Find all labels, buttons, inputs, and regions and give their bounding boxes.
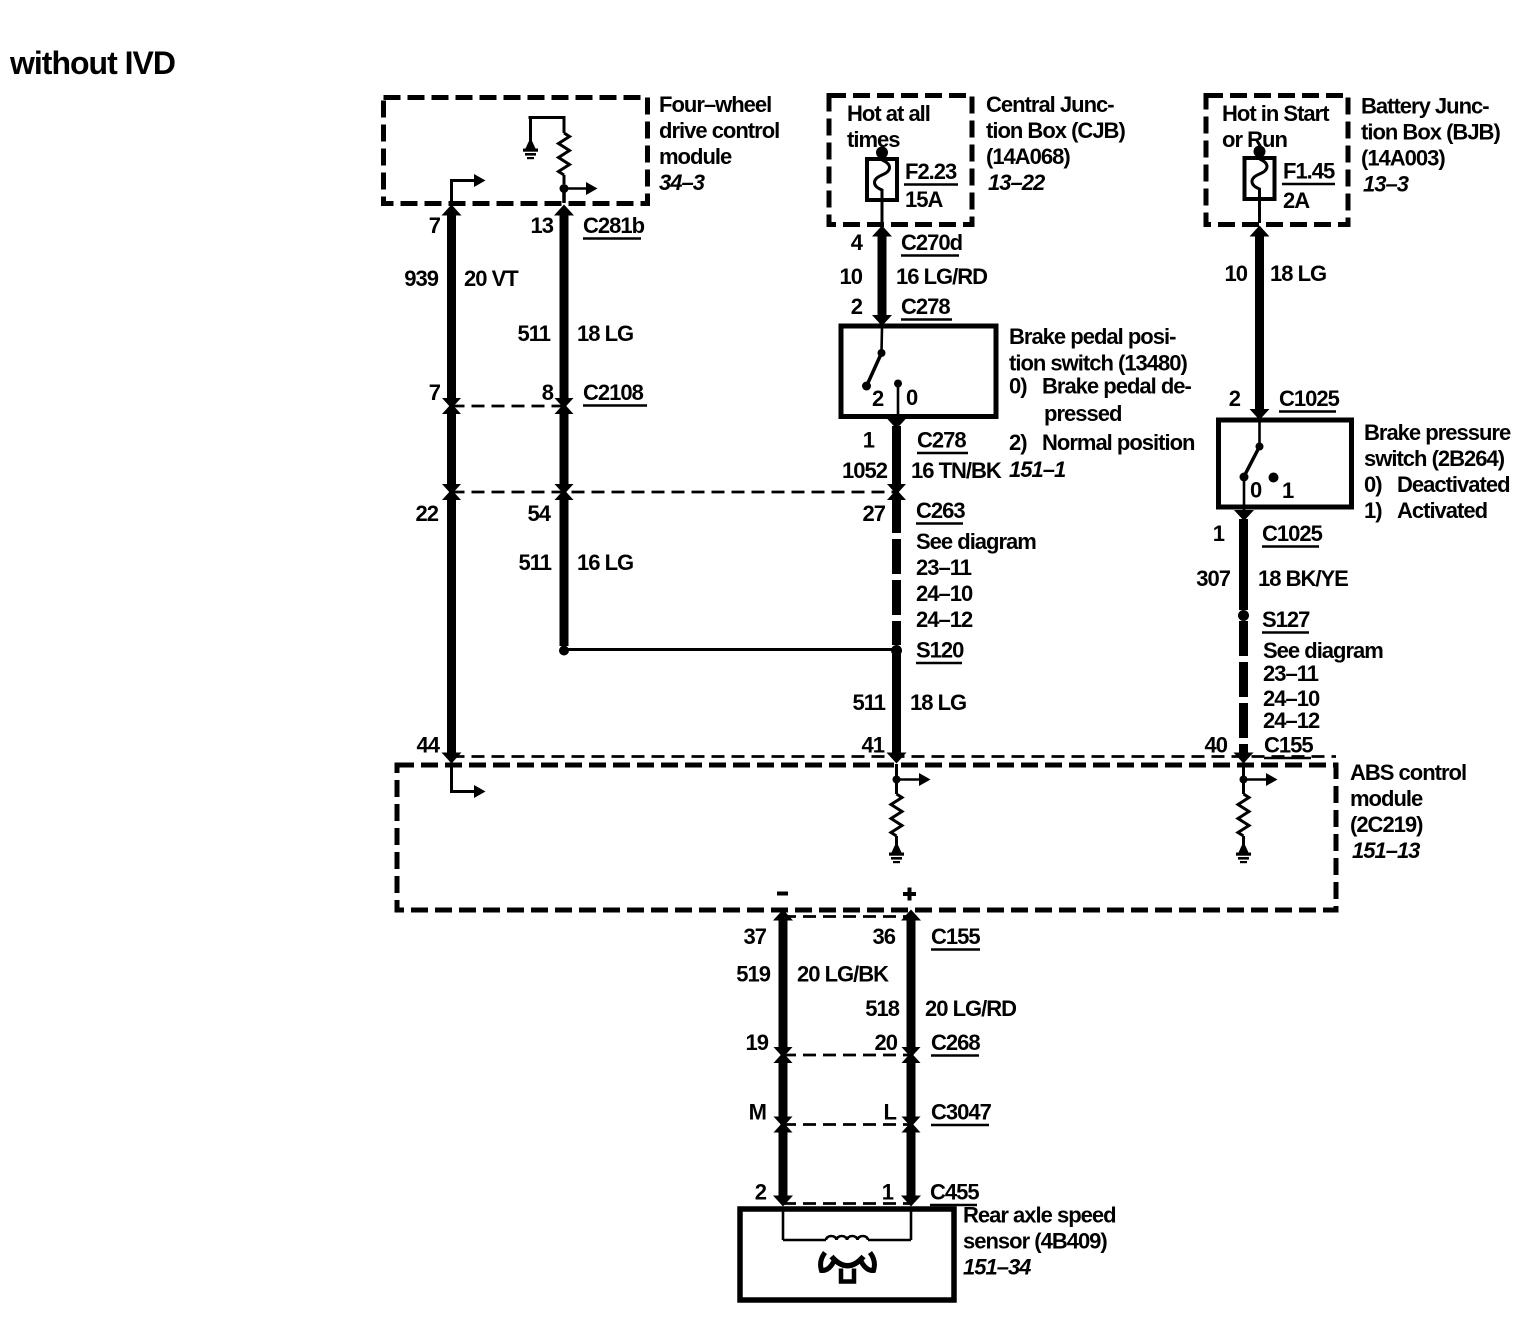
svg-text:C281b: C281b xyxy=(583,213,645,238)
minus polarity label inside ABS xyxy=(777,892,788,896)
svg-text:511: 511 xyxy=(518,321,551,346)
Central Junction Box xyxy=(829,92,1125,225)
labels 10 16 LG/RD xyxy=(840,264,988,289)
svg-text:18 LG: 18 LG xyxy=(910,690,966,715)
see diagram references left xyxy=(916,529,1036,632)
svg-text:22: 22 xyxy=(416,501,439,526)
labels 2 C1025 xyxy=(1229,386,1340,412)
svg-text:24–12: 24–12 xyxy=(916,607,973,632)
svg-text:41: 41 xyxy=(862,733,885,758)
svg-text:7: 7 xyxy=(429,213,441,238)
wire label 511 16 LG xyxy=(519,550,634,575)
svg-text:23–11: 23–11 xyxy=(1263,661,1319,686)
svg-text:20: 20 xyxy=(875,1030,898,1055)
svg-text:C268: C268 xyxy=(931,1030,980,1055)
wire 18 LG BJB to brake pressure switch xyxy=(1250,226,1270,421)
svg-text:10: 10 xyxy=(1225,261,1248,286)
svg-text:Brake pedal posi-: Brake pedal posi- xyxy=(1009,324,1176,349)
svg-text:2: 2 xyxy=(872,386,884,411)
svg-text:34–3: 34–3 xyxy=(659,170,705,195)
see diagram references right xyxy=(1263,638,1383,733)
svg-text:Rear axle speed: Rear axle speed xyxy=(963,1203,1116,1228)
svg-text:F2.23: F2.23 xyxy=(905,159,957,184)
splice S120 label xyxy=(916,638,964,664)
resistor R3 inside ABS at pin40 xyxy=(1238,794,1249,846)
svg-text:2: 2 xyxy=(851,294,863,319)
svg-text:See diagram: See diagram xyxy=(1263,638,1383,663)
svg-text:27: 27 xyxy=(863,501,886,526)
svg-text:(14A068): (14A068) xyxy=(986,144,1070,169)
svg-text:C278: C278 xyxy=(917,428,966,453)
svg-text:939: 939 xyxy=(404,266,438,291)
svg-text:tion Box (BJB): tion Box (BJB) xyxy=(1361,120,1500,145)
svg-text:sensor (4B409): sensor (4B409) xyxy=(963,1229,1107,1254)
wire 518 20 LG/RD ABS pin36 to sensor xyxy=(901,910,921,1207)
labels 1 C1025 xyxy=(1213,521,1323,547)
labels 1052 16 TN/BK xyxy=(842,458,1002,483)
svg-text:(2C219): (2C219) xyxy=(1350,812,1423,837)
svg-text:F1.45: F1.45 xyxy=(1283,159,1335,184)
svg-text:36: 36 xyxy=(873,924,896,949)
ground G1 inside 4WD module xyxy=(523,142,538,160)
sensor coil winding xyxy=(783,1211,911,1240)
labels 307 18 BK/YE xyxy=(1196,566,1348,591)
svg-text:switch (2B264): switch (2B264) xyxy=(1364,446,1505,471)
svg-text:Central Junc-: Central Junc- xyxy=(986,92,1114,117)
wire 939 20 VT pin7 to ABS pin44 xyxy=(442,205,462,764)
connector C263 dashed line with labels 22 54 xyxy=(416,492,897,526)
svg-text:519: 519 xyxy=(736,962,770,987)
splice S127 label xyxy=(1262,607,1310,633)
svg-text:54: 54 xyxy=(528,501,552,526)
svg-text:C1025: C1025 xyxy=(1279,386,1340,411)
svg-text:8: 8 xyxy=(542,380,554,405)
resistor R2 inside ABS at pin41 xyxy=(891,794,902,846)
svg-text:(14A003): (14A003) xyxy=(1361,146,1445,171)
branch arrow inside 4WD module xyxy=(564,182,598,195)
svg-text:without IVD: without IVD xyxy=(9,45,175,81)
svg-text:C278: C278 xyxy=(901,294,950,319)
svg-text:Activated: Activated xyxy=(1397,498,1487,523)
junction node at pin 13 xyxy=(560,184,569,193)
connector crossing C263 on wire 511 xyxy=(555,483,574,501)
svg-text:13–22: 13–22 xyxy=(988,170,1046,195)
svg-text:Deactivated: Deactivated xyxy=(1397,472,1510,497)
plus polarity label inside ABS xyxy=(903,888,916,901)
svg-text:C263: C263 xyxy=(916,498,965,523)
svg-text:Battery Junc-: Battery Junc- xyxy=(1361,94,1489,119)
Battery Junction Box xyxy=(1206,94,1500,225)
svg-text:module: module xyxy=(659,144,732,169)
svg-text:2A: 2A xyxy=(1283,188,1310,213)
svg-text:tion switch (13480): tion switch (13480) xyxy=(1009,351,1188,376)
svg-text:0: 0 xyxy=(1250,478,1262,503)
svg-text:2): 2) xyxy=(1009,430,1027,455)
svg-text:Hot at all: Hot at all xyxy=(847,101,930,126)
svg-text:Normal position: Normal position xyxy=(1042,430,1195,455)
connector C2108 line and labels xyxy=(429,380,647,406)
svg-text:Hot in Start: Hot in Start xyxy=(1222,101,1330,126)
svg-text:Brake pedal de-: Brake pedal de- xyxy=(1042,374,1192,399)
splice node and link wire to S120 xyxy=(559,646,897,656)
svg-text:C155: C155 xyxy=(1264,733,1313,758)
svg-text:307: 307 xyxy=(1196,566,1230,591)
svg-text:20 LG/RD: 20 LG/RD xyxy=(925,996,1016,1021)
svg-text:4: 4 xyxy=(851,230,864,255)
svg-text:2: 2 xyxy=(1229,386,1241,411)
labels 10 18 LG xyxy=(1225,261,1327,286)
svg-text:S127: S127 xyxy=(1262,607,1310,632)
resistor R1 inside 4WD module xyxy=(559,116,570,184)
labels 1 C278 xyxy=(863,428,968,454)
pin labels 7 13 C281b xyxy=(429,213,645,239)
wire label 939 20 VT xyxy=(404,266,519,291)
svg-text:1052: 1052 xyxy=(842,458,888,483)
ABS control module box xyxy=(397,760,1466,910)
svg-text:C3047: C3047 xyxy=(931,1100,992,1125)
svg-text:511: 511 xyxy=(853,690,886,715)
connector C155 dashed line at ABS top xyxy=(452,755,1337,758)
svg-text:1: 1 xyxy=(863,428,875,453)
svg-text:151–34: 151–34 xyxy=(963,1255,1031,1280)
labels 4 C270d xyxy=(851,230,962,256)
brake pressure switch box xyxy=(1219,420,1511,523)
connector C3047 line and labels xyxy=(749,1100,992,1126)
svg-text:times: times xyxy=(847,127,900,152)
wire 307 18 BK/YE pressure switch to ABS pin40 xyxy=(1234,510,1255,764)
labels 519 20 LG/BK xyxy=(736,962,889,987)
switch contacts inside pedal switch xyxy=(862,328,918,419)
svg-text:L: L xyxy=(884,1100,897,1125)
svg-text:Four–wheel: Four–wheel xyxy=(659,92,771,117)
svg-text:20 LG/BK: 20 LG/BK xyxy=(797,962,889,987)
svg-text:1: 1 xyxy=(1282,478,1294,503)
svg-text:18 LG: 18 LG xyxy=(577,321,633,346)
rear axle speed sensor box xyxy=(740,1203,1116,1301)
connector crossing C3047 on wire 519 xyxy=(774,1116,793,1134)
labels 37 36 C155 xyxy=(744,924,981,950)
svg-text:15A: 15A xyxy=(905,187,943,212)
labels 27 C263 xyxy=(863,498,966,526)
svg-text:1: 1 xyxy=(882,1180,894,1205)
labels 511 18 LG xyxy=(853,690,967,715)
ground G3 at pin40 xyxy=(1236,846,1251,864)
svg-text:C155: C155 xyxy=(931,924,980,949)
four-wheel drive control module U1 xyxy=(384,92,780,204)
svg-text:44: 44 xyxy=(417,733,441,758)
connector crossing C2108 on left wire xyxy=(442,397,461,415)
svg-text:2: 2 xyxy=(755,1180,767,1205)
svg-text:10: 10 xyxy=(840,264,863,289)
svg-text:0): 0) xyxy=(1009,374,1027,399)
connector C268 line and labels xyxy=(746,1030,981,1056)
pin 7 wire stub with arrow inside 4WD module xyxy=(450,174,486,203)
svg-text:module: module xyxy=(1350,786,1423,811)
connector crossing C2108 on wire 511 xyxy=(555,397,574,415)
svg-text:518: 518 xyxy=(865,996,899,1021)
wire label 511 18 LG xyxy=(518,321,634,346)
svg-text:M: M xyxy=(749,1100,766,1125)
connector C155 dashed line below ABS xyxy=(783,915,911,918)
svg-text:7: 7 xyxy=(429,380,441,405)
labels 518 20 LG/RD xyxy=(865,996,1016,1021)
svg-text:23–11: 23–11 xyxy=(916,555,972,580)
connector crossing C268 on wire 518 xyxy=(902,1046,921,1064)
svg-text:0): 0) xyxy=(1364,472,1382,497)
svg-text:S120: S120 xyxy=(916,638,964,663)
svg-text:18 LG: 18 LG xyxy=(1270,261,1326,286)
wire stub pin 13 xyxy=(562,189,566,204)
switch contacts inside pressure switch xyxy=(1240,422,1295,519)
svg-text:24–12: 24–12 xyxy=(1263,708,1320,733)
fuse F1.45 2A xyxy=(1245,146,1336,224)
wire 511 pin13 to splice S120 link xyxy=(554,205,574,647)
labels 40 C155 xyxy=(1205,733,1314,759)
pin 41 node and branch arrow inside ABS xyxy=(893,764,931,794)
svg-text:40: 40 xyxy=(1205,733,1228,758)
svg-text:13: 13 xyxy=(531,213,554,238)
wire 519 20 LG/BK ABS pin37 to sensor xyxy=(773,910,793,1207)
svg-text:16 LG/RD: 16 LG/RD xyxy=(896,264,987,289)
svg-text:ABS control: ABS control xyxy=(1350,760,1466,785)
svg-text:151–13: 151–13 xyxy=(1352,838,1420,863)
brake pedal position switch box xyxy=(841,324,1195,482)
svg-text:C1025: C1025 xyxy=(1262,521,1323,546)
svg-text:1: 1 xyxy=(1213,521,1225,546)
svg-text:1): 1) xyxy=(1364,498,1382,523)
connector crossing C3047 on wire 518 xyxy=(902,1116,921,1134)
svg-text:pressed: pressed xyxy=(1044,401,1121,426)
sensor tone ring icon xyxy=(821,1253,875,1282)
pin 44 stub with arrow inside ABS xyxy=(450,764,486,798)
svg-text:16 TN/BK: 16 TN/BK xyxy=(911,458,1002,483)
wire 16 LG/RD CJB to brake pedal switch xyxy=(872,226,892,327)
svg-text:151–1: 151–1 xyxy=(1009,457,1066,482)
svg-text:C455: C455 xyxy=(930,1180,979,1205)
svg-text:511: 511 xyxy=(519,550,552,575)
wire 1052 16 TN/BK pedal switch to S120 and ABS pin41 xyxy=(887,418,907,764)
svg-text:C2108: C2108 xyxy=(583,380,644,405)
connector crossing C263 on left wire xyxy=(442,483,461,501)
fuse F2.23 15A xyxy=(867,147,958,224)
svg-text:37: 37 xyxy=(744,924,767,949)
svg-text:16 LG: 16 LG xyxy=(577,550,633,575)
svg-text:tion Box (CJB): tion Box (CJB) xyxy=(986,118,1125,143)
svg-text:See diagram: See diagram xyxy=(916,529,1036,554)
svg-text:drive control: drive control xyxy=(659,118,779,143)
svg-text:20 VT: 20 VT xyxy=(464,266,519,291)
svg-text:C270d: C270d xyxy=(901,230,962,255)
svg-text:13–3: 13–3 xyxy=(1363,172,1409,197)
wire jumper inside 4WD module xyxy=(529,116,565,142)
svg-text:19: 19 xyxy=(746,1030,769,1055)
connector crossing C268 on wire 519 xyxy=(774,1046,793,1064)
svg-text:24–10: 24–10 xyxy=(916,581,973,606)
svg-text:0: 0 xyxy=(906,385,918,410)
ground G2 at pin41 xyxy=(889,846,904,864)
labels 2 C278 xyxy=(851,294,952,320)
svg-text:18 BK/YE: 18 BK/YE xyxy=(1258,566,1348,591)
pin 40 node and branch arrow inside ABS xyxy=(1240,764,1278,794)
svg-text:Brake pressure: Brake pressure xyxy=(1364,420,1511,445)
connector C455 line and labels xyxy=(755,1180,980,1206)
connector crossing C263 on wire 1052 xyxy=(887,483,906,501)
